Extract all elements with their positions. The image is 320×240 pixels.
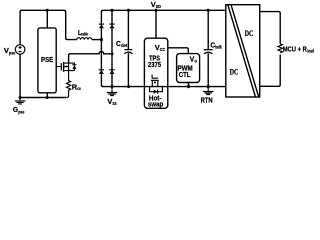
- node leg2 bottom: [110, 85, 113, 88]
- svg-text:det: det: [121, 43, 128, 48]
- isolation diagonal 1: [228, 5, 256, 97]
- wire DC/DC output -: [260, 55, 281, 87]
- svg-text:pse: pse: [18, 109, 25, 114]
- body diode of Q1: [69, 63, 75, 71]
- wire return rail: [102, 86, 226, 88]
- IC U2 PWM controller: [177, 54, 200, 83]
- svg-text:swap: swap: [148, 99, 164, 108]
- wire PSE bottom to ground rail: [46, 93, 48, 98]
- svg-text:pse: pse: [9, 50, 16, 55]
- svg-text:SS: SS: [112, 101, 116, 106]
- svg-text:DC: DC: [230, 67, 239, 76]
- node rail to PSE branch: [46, 9, 49, 12]
- node PSE bottom: [46, 96, 49, 99]
- body diode of Q2: [150, 87, 163, 92]
- svg-text:PSE: PSE: [41, 55, 53, 64]
- capacitor Cbulk: [204, 10, 213, 86]
- wire Vpse+ up, along top, down to inductor level: [20, 10, 77, 44]
- diode bridge leg 1: [101, 11, 103, 86]
- wire Q1 drain to bridge leg 2 (hop over leg 1): [69, 52, 112, 64]
- svg-text:CC: CC: [160, 47, 165, 52]
- resistor Rcs: [67, 71, 71, 98]
- wire rail to TPS Vcc pin: [155, 10, 157, 38]
- node Vcc feed: [154, 9, 157, 12]
- voltage source Vpse: [15, 45, 25, 55]
- capacitor Cdet: [124, 10, 132, 86]
- transistor Q2 hot-swap switch: [150, 75, 163, 94]
- node PWM ground pin: [187, 85, 190, 88]
- IC U1 TPS2375: [144, 38, 167, 108]
- node inductor / leg1: [100, 38, 103, 41]
- wire inductor to bridge leg 1: [92, 39, 102, 41]
- diode D2 top of leg 2: [109, 24, 114, 28]
- wire DC/DC output +: [260, 12, 281, 44]
- svg-text:RTN: RTN: [201, 95, 213, 104]
- svg-text:2375: 2375: [148, 60, 161, 69]
- wire VDD rail: [101, 10, 225, 12]
- DC/DC converter U3: [226, 5, 260, 97]
- ground RTN: [203, 87, 214, 95]
- inductor Lcable: [77, 38, 92, 40]
- svg-text:cable: cable: [81, 32, 89, 37]
- node Cbulk bottom: [207, 85, 210, 88]
- diode D3 bottom of leg 1: [99, 70, 104, 74]
- wire PSE ground rail: [20, 97, 67, 99]
- wire TPS to PWM controller: [168, 48, 189, 54]
- wire Vpse- down to ground rail: [19, 54, 21, 97]
- svg-text:bulk: bulk: [215, 45, 222, 50]
- svg-text:load: load: [307, 49, 314, 54]
- resistor load MCU: [278, 44, 282, 53]
- node leg2 top: [110, 9, 113, 12]
- transistor Q1 PSE switch: [56, 62, 76, 72]
- node Cbulk top: [207, 9, 210, 12]
- diode D4 bottom of leg 2: [109, 70, 114, 74]
- isolation diagonal 2: [231, 5, 259, 97]
- wire rail down to PSE top: [46, 10, 48, 28]
- svg-text:DC: DC: [245, 29, 254, 38]
- node Vpse bottom: [19, 96, 22, 99]
- node drain wire / leg 2: [110, 52, 113, 55]
- ground Gpse: [15, 98, 26, 104]
- node Cdet bottom: [127, 85, 130, 88]
- node Cdet top: [127, 9, 130, 12]
- svg-text:DD: DD: [156, 4, 161, 9]
- svg-text:CTL: CTL: [179, 70, 191, 79]
- svg-text:o: o: [194, 58, 197, 63]
- PSE box: [38, 28, 56, 93]
- diode D1 top of leg 1: [99, 24, 104, 28]
- svg-text:MCU + R: MCU + R: [283, 47, 307, 54]
- wire PWM ground pin: [188, 83, 190, 87]
- svg-text:cs: cs: [77, 86, 81, 91]
- diode bridge leg 2: [111, 10, 113, 86]
- ground Vss: [107, 87, 118, 96]
